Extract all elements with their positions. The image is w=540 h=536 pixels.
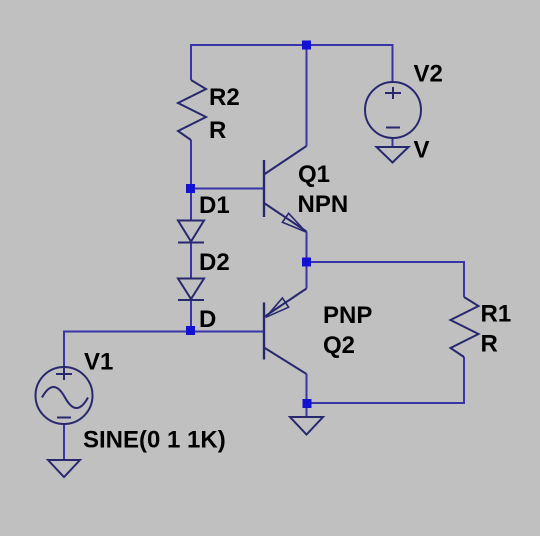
ground (output) bbox=[290, 417, 323, 435]
voltage source V2 bbox=[365, 82, 421, 138]
svg-text:PNP: PNP bbox=[323, 302, 372, 329]
diode D2 bbox=[178, 279, 204, 301]
wire output node to R1 top bbox=[307, 262, 465, 297]
resistor R1 bbox=[451, 297, 479, 357]
wire Q2 emitter lead bbox=[306, 262, 308, 289]
svg-text:SINE(0 1 1K): SINE(0 1 1K) bbox=[83, 427, 226, 454]
transistor Q1 bbox=[264, 146, 307, 232]
svg-text:V2: V2 bbox=[414, 61, 443, 88]
node D junction bbox=[186, 326, 195, 335]
svg-text:Q1: Q1 bbox=[298, 161, 330, 188]
wire V1 minus to ground bbox=[63, 424, 65, 460]
wire D2 cathode to node D bbox=[190, 300, 192, 332]
svg-text:D2: D2 bbox=[199, 249, 230, 276]
wire V1 to node D to Q2 base bbox=[64, 332, 264, 368]
svg-text:Q2: Q2 bbox=[323, 332, 355, 359]
transistor Q2 bbox=[264, 289, 307, 375]
ground (V2) bbox=[377, 147, 409, 163]
wire Q2 collector to ground node bbox=[306, 374, 308, 403]
node junction Q1 base / D1 bbox=[186, 184, 195, 193]
wire R2 bottom to D1 bbox=[190, 140, 192, 220]
svg-text:R: R bbox=[481, 331, 498, 358]
wire Q1 base bbox=[191, 188, 264, 190]
svg-text:D1: D1 bbox=[199, 192, 230, 219]
voltage source V1 bbox=[36, 367, 93, 424]
svg-text:D: D bbox=[199, 306, 216, 333]
wire top rail from R2 to V2 bbox=[191, 45, 393, 82]
svg-text:R1: R1 bbox=[481, 301, 512, 328]
ground (V1) bbox=[48, 460, 80, 477]
node junction top rail bbox=[302, 41, 311, 50]
wire R1 bottom to ground node bbox=[307, 357, 465, 403]
svg-text:R2: R2 bbox=[209, 84, 240, 111]
svg-text:NPN: NPN bbox=[298, 191, 349, 218]
node junction output (emitters) bbox=[302, 258, 311, 267]
node junction ground bbox=[303, 399, 312, 408]
svg-text:R: R bbox=[209, 117, 226, 144]
wire Q1 collector to top rail bbox=[306, 45, 308, 146]
svg-text:V: V bbox=[414, 137, 430, 164]
wire ground node lead bbox=[306, 403, 308, 417]
diode D1 bbox=[178, 221, 204, 243]
resistor R2 bbox=[178, 80, 206, 140]
svg-text:V1: V1 bbox=[84, 349, 113, 376]
wire D1 cathode to D2 anode bbox=[190, 243, 192, 279]
wire V2 minus to ground bbox=[392, 138, 394, 147]
wire Q1 emitter to output node bbox=[306, 232, 308, 263]
